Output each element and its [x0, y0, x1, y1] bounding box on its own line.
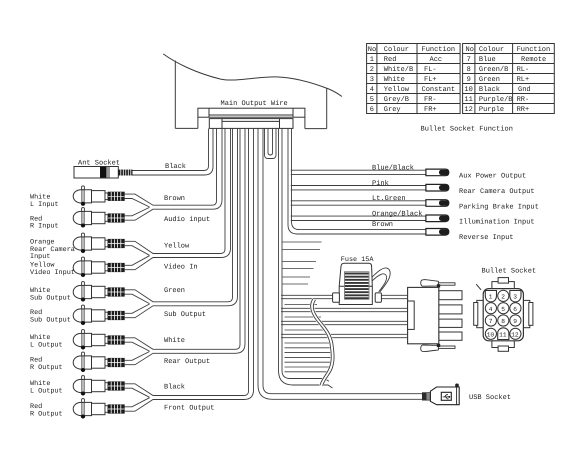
svg-text:RR-: RR- [517, 96, 530, 104]
pin 7 [485, 315, 496, 326]
svg-text:Purple/B: Purple/B [479, 95, 513, 104]
svg-text:6: 6 [370, 106, 374, 114]
RCA plug White Sub Output [73, 282, 124, 302]
svg-text:Function: Function [517, 45, 551, 54]
svg-text:Green/B: Green/B [479, 65, 508, 74]
RCA plug White L Output front [73, 376, 124, 396]
power connector P1 [408, 280, 462, 352]
svg-text:Yellow: Yellow [164, 241, 190, 250]
svg-text:Brown: Brown [164, 195, 185, 203]
terminal rear camera [426, 184, 449, 191]
wire power w2 [281, 308, 408, 311]
svg-text:10: 10 [487, 331, 495, 338]
wire shorted loop under connector [265, 129, 277, 159]
svg-text:Red: Red [384, 55, 397, 64]
svg-text:5: 5 [370, 96, 374, 104]
svg-text:White/B: White/B [384, 65, 413, 74]
svg-text:12: 12 [511, 331, 519, 338]
svg-text:6: 6 [513, 306, 517, 313]
svg-text:Main Output Wire: Main Output Wire [221, 99, 288, 108]
antenna socket J1 [74, 167, 133, 179]
RCA plug Red Sub Output [73, 305, 124, 325]
svg-text:4: 4 [370, 86, 374, 94]
svg-text:Yellow: Yellow [384, 85, 410, 94]
terminal reverse [426, 229, 449, 236]
RCA plug Red R Input [73, 208, 124, 228]
svg-text:Acc: Acc [430, 56, 443, 64]
terminal parking brake [426, 200, 449, 207]
pin 4 [485, 303, 496, 314]
svg-text:10: 10 [464, 86, 472, 94]
connector pinout table left half [367, 44, 461, 114]
svg-text:Grey: Grey [384, 106, 401, 114]
svg-text:No: No [368, 46, 376, 54]
RCA plug Red R Output front [73, 399, 124, 419]
svg-text:FL+: FL+ [424, 76, 437, 84]
svg-text:Purple: Purple [479, 105, 504, 114]
table text left [368, 45, 455, 114]
svg-text:Colour: Colour [384, 45, 409, 54]
pin 6 [510, 303, 521, 314]
wire power w3 [281, 321, 408, 324]
svg-text:RL+: RL+ [517, 76, 530, 84]
svg-text:Front Output: Front Output [164, 404, 214, 412]
terminal aux power [426, 169, 449, 176]
svg-text:3: 3 [370, 76, 374, 84]
wire fan lower [285, 343, 332, 372]
svg-text:11: 11 [464, 96, 472, 104]
pin 9 [510, 315, 521, 326]
wire loose curved cable (S-curve) [311, 299, 334, 386]
svg-text:Rear Output: Rear Output [164, 358, 210, 366]
pin 3 [510, 291, 521, 302]
RCA plug White L Output [73, 330, 124, 350]
svg-text:White: White [384, 75, 405, 84]
head unit U1 (partial view, wavy break line) [163, 54, 342, 129]
wire brown cable bend (cable to reverse input) [288, 129, 426, 234]
svg-text:Video In: Video In [164, 263, 198, 272]
fuse F1 holder [333, 263, 391, 304]
pin 1 [485, 291, 496, 302]
wire pair1 audio to connector [125, 129, 222, 221]
wire antenna black to connector [133, 129, 214, 175]
svg-text:Rear Camera Output: Rear Camera Output [459, 188, 535, 196]
svg-text:Constant: Constant [422, 86, 456, 94]
connector pinout table right half [463, 44, 555, 114]
bullet socket J2 [474, 278, 533, 352]
wire fan middle [285, 305, 326, 331]
svg-text:Black: Black [479, 85, 500, 94]
RCA plug Red R Output [73, 352, 124, 372]
svg-text:Gnd: Gnd [518, 85, 531, 94]
wire usb cable down from connector [258, 129, 422, 400]
svg-text:Grey/B: Grey/B [384, 95, 409, 104]
svg-text:Blue: Blue [479, 55, 496, 64]
svg-text:12: 12 [464, 106, 472, 114]
svg-text:FR+: FR+ [424, 106, 437, 114]
svg-text:Sub Output: Sub Output [164, 310, 206, 319]
svg-text:9: 9 [467, 76, 471, 84]
connector bar upper [198, 108, 305, 117]
svg-text:Colour: Colour [479, 45, 504, 54]
wire fan upper [283, 242, 322, 284]
wire illumination (orange/black) [291, 216, 426, 220]
terminal illumination [426, 215, 449, 222]
pin 2 [498, 290, 509, 301]
wire aux power (blue/black) [291, 170, 426, 174]
svg-text:Bullet Socket Function: Bullet Socket Function [421, 125, 513, 134]
svg-text:Lt.Green: Lt.Green [372, 195, 406, 203]
svg-text:Brown: Brown [372, 221, 393, 229]
svg-text:11: 11 [499, 331, 507, 338]
svg-text:White: White [164, 336, 185, 345]
svg-text:8: 8 [501, 318, 505, 325]
svg-text:Blue/Black: Blue/Black [372, 164, 414, 173]
svg-text:1: 1 [489, 294, 493, 301]
RCA plug Yellow Video Input [73, 257, 124, 277]
svg-text:3: 3 [513, 294, 517, 301]
pin 10 [485, 328, 496, 339]
svg-text:No: No [466, 46, 474, 54]
svg-text:7: 7 [467, 56, 471, 64]
svg-text:RR+: RR+ [517, 106, 530, 114]
wire power feed w1 through fuse [281, 295, 408, 298]
usb socket J3 [422, 384, 459, 405]
svg-text:7: 7 [489, 318, 493, 325]
wire pair2 video to connector [125, 129, 231, 270]
pin 12 [510, 328, 521, 339]
wire pair4 rear to connector [125, 129, 245, 365]
svg-text:Function: Function [422, 45, 456, 54]
pin 8 [498, 315, 509, 326]
svg-text:Remote: Remote [521, 56, 546, 64]
svg-text:Orange/Black: Orange/Black [372, 210, 422, 219]
svg-text:2: 2 [501, 294, 505, 301]
svg-text:Aux Power Output: Aux Power Output [459, 173, 526, 181]
RCA plug White L Input [73, 186, 124, 206]
wire harness spine lines [279, 129, 333, 388]
wire pair5 front to connector [125, 129, 254, 412]
wire parking brake (lt.green) [291, 201, 426, 205]
svg-text:9: 9 [513, 318, 517, 325]
pin 11 [498, 328, 509, 340]
svg-text:USB Socket: USB Socket [469, 393, 511, 402]
svg-text:Bullet Socket: Bullet Socket [482, 267, 537, 276]
svg-text:Audio input: Audio input [164, 215, 210, 224]
pin 5 [498, 303, 509, 314]
connector bar lower [209, 119, 293, 129]
svg-text:1: 1 [370, 56, 374, 64]
svg-text:FL-: FL- [424, 66, 437, 74]
svg-text:RL-: RL- [517, 66, 530, 74]
svg-text:8: 8 [467, 66, 471, 74]
wire pair3 sub to connector [125, 129, 238, 318]
svg-text:Black: Black [164, 383, 185, 392]
table text right [464, 45, 550, 114]
RCA plug Orange Rear Camera Input [73, 233, 124, 253]
svg-text:Illumination Input: Illumination Input [459, 218, 535, 227]
svg-text:FR-: FR- [424, 96, 437, 104]
svg-text:Black: Black [165, 162, 186, 171]
wire rear camera (pink) [291, 186, 426, 190]
svg-text:5: 5 [501, 306, 505, 313]
wire power w4 [281, 334, 408, 337]
svg-text:Reverse Input: Reverse Input [459, 234, 514, 242]
svg-text:Parking Brake Input: Parking Brake Input [459, 202, 539, 211]
svg-text:4: 4 [489, 306, 493, 313]
svg-text:Green: Green [164, 287, 185, 295]
svg-text:2: 2 [370, 66, 374, 74]
svg-text:Pink: Pink [372, 179, 389, 188]
svg-text:Green: Green [479, 76, 500, 84]
